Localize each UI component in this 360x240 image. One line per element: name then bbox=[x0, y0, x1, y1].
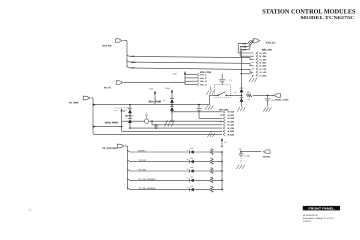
svg-text:330: 330 bbox=[247, 91, 250, 94]
svg-text:4K7: 4K7 bbox=[210, 176, 213, 179]
svg-text:GND: GND bbox=[242, 45, 247, 48]
svg-text:12V: 12V bbox=[131, 67, 135, 70]
svg-text:21/05/97: 21/05/97 bbox=[303, 220, 312, 223]
svg-text:1.4A: 1.4A bbox=[172, 73, 177, 76]
svg-text:RX_AB_ENABLE: RX_AB_ENABLE bbox=[138, 178, 156, 181]
svg-text:M_SW1: M_SW1 bbox=[228, 130, 235, 133]
svg-text:PA_2: PA_2 bbox=[200, 77, 207, 80]
svg-text:P101 J11: P101 J11 bbox=[266, 41, 276, 44]
svg-text:1U 50V: 1U 50V bbox=[244, 154, 251, 157]
svg-text:S1: S1 bbox=[234, 91, 236, 94]
svg-text:TX_INT: TX_INT bbox=[138, 159, 146, 162]
svg-text:C1: C1 bbox=[229, 79, 231, 82]
svg-text:MOD_PWR: MOD_PWR bbox=[105, 121, 118, 124]
svg-text:SMB_CONN: SMB_CONN bbox=[262, 49, 272, 52]
svg-text:F1: F1 bbox=[163, 99, 165, 102]
svg-text:AT_SW2: AT_SW2 bbox=[259, 65, 267, 68]
svg-text:P2_5V: P2_5V bbox=[104, 86, 111, 89]
svg-text:GND: GND bbox=[131, 61, 136, 64]
svg-text:4K7: 4K7 bbox=[210, 147, 213, 150]
svg-text:PANEL_LAMP: PANEL_LAMP bbox=[275, 98, 290, 101]
svg-text:2x: 2x bbox=[187, 158, 189, 161]
svg-text:2x: 2x bbox=[187, 148, 189, 151]
svg-text:M_5V1: M_5V1 bbox=[228, 114, 235, 117]
svg-text:P2_PWR: P2_PWR bbox=[69, 101, 79, 104]
svg-text:RX_INT: RX_INT bbox=[138, 168, 147, 171]
svg-text:M_GN1: M_GN1 bbox=[228, 120, 235, 123]
svg-text:M_RTN: M_RTN bbox=[228, 127, 235, 130]
svg-text:J101 P11: J101 P11 bbox=[102, 44, 112, 47]
svg-text:4K7: 4K7 bbox=[210, 185, 213, 188]
svg-text:4K7: 4K7 bbox=[210, 157, 213, 160]
svg-text:0.5A: 0.5A bbox=[165, 87, 170, 90]
svg-text:PA_4: PA_4 bbox=[200, 83, 207, 86]
svg-text:2x: 2x bbox=[187, 186, 189, 189]
svg-text:RESET: RESET bbox=[138, 149, 146, 152]
svg-text:M_GN0: M_GN0 bbox=[228, 117, 235, 120]
svg-text:M_SW2: M_SW2 bbox=[228, 133, 235, 136]
svg-text:M_5V0: M_5V0 bbox=[228, 111, 235, 114]
svg-text:2x: 2x bbox=[187, 167, 189, 170]
svg-text:AT_GND: AT_GND bbox=[259, 55, 266, 58]
svg-text:TX_AB_ENABLE: TX_AB_ENABLE bbox=[138, 187, 156, 190]
svg-text:1.5A: 1.5A bbox=[149, 87, 154, 90]
svg-text:12V: 12V bbox=[242, 48, 246, 51]
svg-text:AT_LP2: AT_LP2 bbox=[259, 71, 267, 74]
svg-text:FRONT PANEL: FRONT PANEL bbox=[308, 207, 334, 211]
svg-text:SPARE: SPARE bbox=[263, 155, 271, 158]
svg-text:2W: 2W bbox=[247, 98, 250, 101]
svg-text:AT_SW1: AT_SW1 bbox=[259, 61, 267, 64]
svg-text:Schematics (Sheet 27 of 36): Schematics (Sheet 27 of 36) bbox=[303, 217, 334, 220]
svg-text:MODEL TCN6275C: MODEL TCN6275C bbox=[300, 15, 354, 20]
svg-text:AEPS394233-B: AEPS394233-B bbox=[303, 214, 318, 217]
svg-text:M_12V: M_12V bbox=[228, 124, 235, 127]
svg-text:C8: C8 bbox=[239, 148, 241, 151]
svg-text:AT_SHD: AT_SHD bbox=[259, 74, 266, 77]
svg-text:AT_5V0: AT_5V0 bbox=[259, 52, 267, 55]
svg-text:AT_LP1: AT_LP1 bbox=[259, 68, 267, 71]
svg-text:AT_12V: AT_12V bbox=[259, 58, 267, 61]
svg-text:PA_1: PA_1 bbox=[200, 73, 207, 76]
svg-text:PA_3: PA_3 bbox=[200, 80, 207, 83]
svg-text:P2_CONTROL: P2_CONTROL bbox=[102, 147, 118, 150]
svg-text:2x: 2x bbox=[187, 177, 189, 180]
svg-text:4K7: 4K7 bbox=[210, 166, 213, 169]
